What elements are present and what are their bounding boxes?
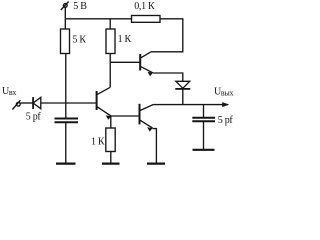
ground (under Q3 emitter) [147,163,165,165]
svg-text:Uвх: Uвх [2,86,16,97]
wire: node B down to Q2 collector [109,62,111,87]
wire: R1 bottom to input line and C1 [65,54,67,119]
diode D1 (input, cathode left) [33,97,41,109]
ground (under R4) [102,163,120,165]
svg-text:5 pf: 5 pf [26,111,42,122]
wire: node E down to R4 [110,116,112,128]
transistor Q1 (upper NPN) [140,52,153,76]
svg-text:5 В: 5 В [73,1,87,12]
wire: supply terminal to top rail [64,8,66,19]
svg-text:1 К: 1 К [91,136,105,147]
svg-text:1 К: 1 К [118,34,132,45]
wire: node E to Q3 base [111,115,139,117]
wire: input terminal to D1 [20,102,33,104]
ground (under C2) [193,149,215,151]
capacitor C1 (input shunt) [55,119,79,123]
capacitor C2 (output) [192,105,215,122]
svg-text:0,1 К: 0,1 К [134,1,155,12]
wire: R4 bottom to ground [110,152,112,164]
svg-text:5 pf: 5 pf [218,115,234,126]
wire: top rail left section [65,18,131,20]
transistor Q2 (input NPN) [97,87,112,119]
svg-text:5 К: 5 К [73,34,87,45]
resistor R2 1K (base bias) [106,19,115,54]
wire: C1 bottom to ground [65,122,67,163]
wire: node B to Q1 base [110,61,139,63]
wire: C2 bottom to ground [203,121,205,149]
ground (under C1) [56,163,76,165]
wire: D1 to Q2 base [41,102,96,104]
wire: Q1 emitter to diode D2 [153,73,183,81]
wire: Q3 emitter to ground [153,129,157,163]
resistor R1 5K [61,19,70,54]
wire: output line (Q3 collector to output arrow) [153,104,228,106]
resistor R3 0,1K (collector load) [132,16,161,23]
wire: D2 cathode down to output line [182,89,184,105]
resistor R4 1K (emitter) [106,128,115,152]
terminal: Uвх input [12,100,20,109]
terminal: +5V supply input [61,2,69,11]
output arrow Uвых [222,102,229,107]
transistor Q3 (output NPN) [140,104,154,132]
svg-text:Uвых: Uвых [214,87,233,98]
wire: R2 bottom to node B [109,54,111,63]
diode D2 (level shift, anode up) [175,81,190,89]
wire: R3 right to corner and down to Q1 collector [151,19,183,52]
